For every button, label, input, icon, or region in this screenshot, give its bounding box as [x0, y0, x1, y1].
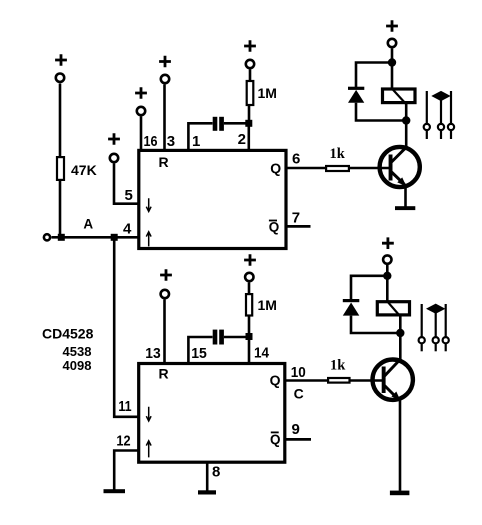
wire node A to pin 4: [52, 236, 139, 239]
capacitor C2: [213, 330, 224, 345]
junction C1/1M/pin2: [245, 120, 252, 127]
svg-text:3: 3: [167, 133, 175, 150]
transistor Q1 circle: [380, 147, 420, 187]
supply terminal + (1M no.1): [244, 40, 256, 68]
svg-text:C: C: [294, 386, 304, 402]
wire 1k to Q1 base: [349, 167, 390, 170]
wire junction to diode D2: [351, 276, 387, 300]
transistor Q2 emitter stroke: [385, 386, 399, 400]
svg-text:9: 9: [292, 421, 300, 438]
svg-text:16: 16: [144, 133, 158, 150]
relay RL1 coil: [383, 89, 416, 103]
contact set K1 pole diamond: [432, 92, 449, 101]
junction dot relay2 bottom: [396, 329, 404, 337]
resistor R2 1M: [247, 81, 254, 105]
svg-text:1M: 1M: [258, 297, 277, 313]
wire supply to 47K: [59, 84, 62, 158]
svg-text:1k: 1k: [330, 146, 346, 162]
wire Q1 emitter to ground: [404, 184, 407, 207]
wire relay coil to collector: [405, 104, 408, 148]
junction dot relay2 top: [383, 272, 391, 280]
transistor Q2 circle: [373, 360, 413, 400]
svg-text:5: 5: [125, 187, 133, 204]
supply terminal + (pin 16): [135, 87, 147, 115]
input terminal: [44, 234, 50, 240]
supply terminal + (relay 1): [386, 20, 398, 47]
wire 47K to node A: [59, 181, 62, 237]
supply terminal + (above 47K): [55, 54, 67, 82]
svg-text:47K: 47K: [71, 162, 97, 178]
ground Q2 emitter: [390, 491, 410, 496]
U2 down-arrow (pin 11 trigger): [146, 407, 151, 421]
svg-text:11: 11: [118, 398, 131, 415]
wire terminal to 1M: [249, 70, 252, 82]
contact set K2 pole diamond: [427, 304, 444, 313]
svg-text:12: 12: [116, 433, 130, 450]
svg-text:8: 8: [212, 464, 220, 481]
svg-text:1M: 1M: [258, 85, 277, 101]
svg-text:1: 1: [192, 133, 200, 150]
U1 Qbar overline: [269, 220, 277, 222]
svg-text:4098: 4098: [63, 358, 92, 373]
supply terminal + (pin 3): [159, 56, 171, 84]
wire pin 16: [140, 117, 143, 152]
supply terminal + (1M no.2): [244, 254, 256, 281]
svg-text:4: 4: [123, 221, 132, 238]
wire C1 to junction: [224, 122, 249, 125]
U2 up-arrow (pin 12 trigger): [146, 441, 151, 458]
transistor Q2 collector stroke: [385, 359, 402, 377]
pin 12 wire and ground drop: [114, 451, 139, 490]
transistor Q1 emitter arrow: [397, 177, 406, 186]
ground Q1 emitter: [395, 206, 415, 210]
pin 1 wire: [188, 123, 212, 151]
wire 1M no.2 to pin 14: [248, 316, 251, 363]
junction dot relay1 top: [388, 58, 396, 66]
IC U2 monostable body: [139, 364, 285, 463]
diode D2 triangle: [343, 303, 360, 316]
pin 10 wire Q to 1k: [286, 379, 328, 382]
diode D2 cathode bar: [343, 299, 360, 302]
svg-text:Q: Q: [270, 160, 281, 176]
wire pin 3: [163, 85, 166, 152]
transistor Q1 base bar: [389, 155, 393, 181]
wire D1 to bottom rail: [356, 103, 406, 121]
svg-text:4538: 4538: [63, 344, 92, 359]
pin 15 wire: [188, 337, 212, 362]
IC U1 monostable body: [139, 150, 286, 248]
supply terminal + (pin 13): [160, 269, 172, 298]
pin 7 stub wire: [287, 225, 311, 228]
diode D1 cathode bar: [348, 87, 364, 90]
supply terminal + (pin 5): [108, 133, 120, 162]
junction dot relay1 bottom: [402, 116, 410, 124]
relay RL1 diagonal: [392, 89, 405, 104]
svg-text:7: 7: [292, 209, 300, 226]
pin 9 stub wire: [286, 438, 311, 441]
capacitor C1: [213, 117, 224, 131]
wire 1M to junction: [248, 105, 251, 121]
wire terminal to junction relay 2: [386, 265, 389, 279]
svg-text:Q: Q: [270, 432, 281, 447]
svg-text:R: R: [159, 154, 169, 170]
svg-text:R: R: [159, 366, 169, 382]
junction node A / pin 11 branch: [111, 234, 118, 241]
wire junction to relay coil: [391, 63, 394, 90]
wire terminal to junction: [391, 49, 394, 67]
contact set K2 pole line: [433, 313, 439, 352]
contact set K1 pole line: [438, 100, 444, 139]
svg-text:10: 10: [291, 364, 306, 381]
resistor R3 1M: [246, 294, 252, 315]
contact set K2 left throw: [419, 304, 425, 351]
wire terminal to 1M no.2: [248, 283, 251, 295]
svg-text:2: 2: [238, 131, 246, 148]
svg-text:14: 14: [254, 345, 270, 362]
wire junction to relay coil no.2: [386, 276, 389, 302]
relay RL2 coil: [377, 302, 409, 315]
wire junction to diode D1: [356, 63, 392, 88]
wire pin 5: [114, 164, 139, 204]
svg-text:Q: Q: [270, 372, 281, 388]
supply terminal + (relay 2): [382, 237, 394, 263]
ground pin 12: [104, 489, 126, 493]
contact set K1 right throw: [448, 91, 454, 139]
wire relay coil no.2 to collector: [399, 316, 402, 360]
transistor Q2 base bar: [382, 367, 386, 394]
contact set K1 left throw: [424, 91, 430, 139]
transistor Q2 emitter arrow: [391, 392, 400, 401]
pin 2 wire: [248, 123, 251, 151]
svg-text:Q: Q: [269, 220, 280, 235]
resistor R4 1k: [326, 166, 349, 171]
wire 1k to Q2 base: [351, 379, 385, 382]
svg-text:13: 13: [145, 345, 160, 362]
transistor Q1 collector stroke: [391, 146, 408, 163]
junction C2/1M/pin14: [246, 333, 253, 340]
wire node A to pin 11: [114, 240, 139, 417]
wire Q2 emitter to ground: [399, 398, 402, 491]
svg-text:6: 6: [292, 150, 300, 167]
wire pin 13: [163, 300, 166, 363]
pin 6 wire Q to 1k: [287, 167, 326, 170]
resistor R5 1k: [328, 378, 349, 383]
svg-text:CD4528: CD4528: [42, 325, 94, 341]
contact set K2 right throw: [443, 304, 449, 351]
pin 8 wire: [206, 462, 209, 491]
transistor Q1 emitter stroke: [391, 172, 405, 185]
U2 Qbar overline: [271, 431, 279, 433]
wire C2 to junction: [224, 336, 249, 339]
junction node A / 47K: [58, 234, 65, 241]
ground pin 8: [198, 490, 216, 494]
svg-text:15: 15: [191, 345, 207, 362]
svg-text:1k: 1k: [330, 358, 346, 374]
wire D2 to bottom rail: [351, 316, 400, 333]
resistor R1 47K: [57, 157, 64, 180]
svg-text:A: A: [83, 217, 93, 232]
diode D1 triangle: [348, 90, 364, 103]
U1 up-arrow (pin 4 trigger): [146, 232, 151, 247]
U1 down-arrow (pin 5 trigger): [146, 198, 151, 211]
relay RL2 diagonal: [388, 302, 401, 316]
